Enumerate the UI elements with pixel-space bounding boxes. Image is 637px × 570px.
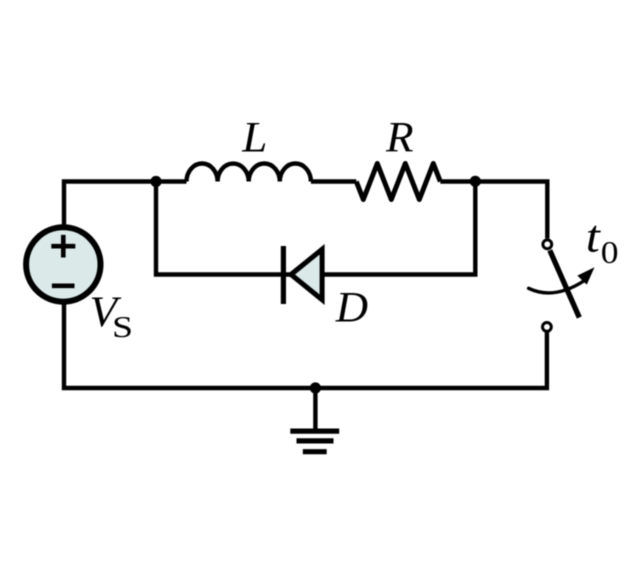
- wire between L and R: [311, 179, 356, 183]
- wire source bottom + bottom rail: [64, 301, 547, 388]
- switch motion arc: [529, 281, 585, 293]
- svg-text:S: S: [112, 310, 133, 344]
- ground stub wire: [313, 388, 317, 429]
- node B junction dot: [470, 176, 481, 187]
- switch blade: [550, 250, 580, 317]
- diode D cathode bar: [281, 246, 286, 304]
- ground bar 1: [290, 429, 339, 434]
- label D: [335, 284, 369, 331]
- switch top terminal: [543, 240, 552, 249]
- svg-text:R: R: [385, 114, 414, 162]
- svg-text:0: 0: [601, 235, 619, 270]
- ground bar 2: [297, 438, 334, 443]
- switch arrowhead: [578, 268, 593, 284]
- minus sign: [52, 283, 75, 288]
- wire diode branch (down, across, up): [156, 182, 475, 275]
- plus sign: [51, 235, 75, 258]
- label R: [385, 114, 414, 162]
- ground junction dot: [310, 382, 321, 393]
- switch bottom terminal: [543, 323, 552, 332]
- inductor L: [187, 164, 311, 182]
- svg-text:t: t: [586, 211, 602, 261]
- svg-text:L: L: [241, 114, 267, 162]
- svg-text:D: D: [335, 284, 369, 331]
- wire top rail left segment with corner to source: [64, 182, 187, 229]
- voltage source VS circle: [26, 227, 100, 301]
- wire from R to switch corner: [440, 182, 547, 239]
- label L: [241, 114, 267, 162]
- ground bar 3: [303, 449, 327, 454]
- label VS: [90, 288, 123, 336]
- label t0: [586, 211, 602, 261]
- node A junction dot: [150, 176, 161, 187]
- resistor R: [356, 164, 440, 200]
- diode D triangle: [291, 249, 322, 299]
